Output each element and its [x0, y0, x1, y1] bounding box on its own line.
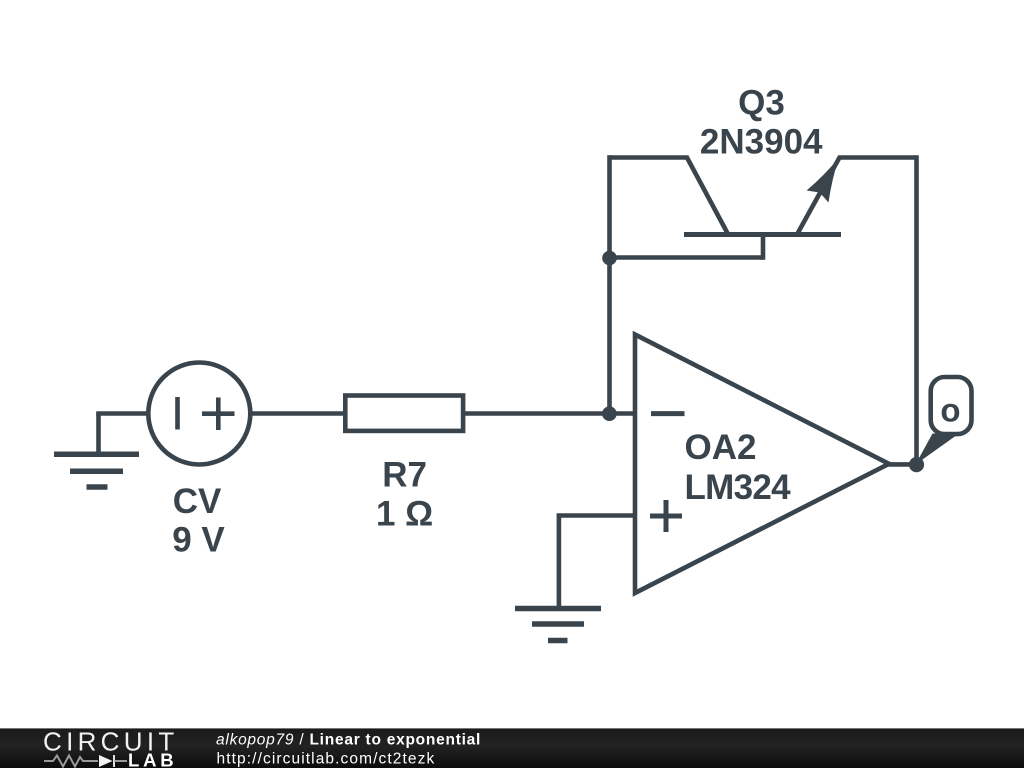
node N2 junction dot (base tap) [602, 251, 617, 266]
wire op-amp output [886, 462, 917, 467]
svg-text:CV: CV [173, 482, 222, 521]
svg-text:o: o [940, 392, 960, 429]
logo resistor zigzag and diode [44, 755, 127, 767]
svg-text:9 V: 9 V [172, 521, 225, 560]
output flag o [931, 377, 972, 434]
label CV 9 V [172, 482, 225, 560]
wire vertical N1 up to transistor collector [607, 155, 612, 413]
op-amp plus sign [650, 500, 682, 532]
svg-text:http://circuitlab.com/ct2tezk: http://circuitlab.com/ct2tezk [217, 750, 436, 767]
wire source to R7 [250, 411, 346, 416]
label R7 1 Ohm [376, 456, 433, 534]
svg-text:2N3904: 2N3904 [700, 123, 823, 162]
wire right vertical (emitter to output node) [914, 155, 919, 464]
footer bar [0, 728, 1024, 768]
node N1 junction dot [602, 406, 617, 421]
wire base tap horizontal [610, 255, 764, 260]
svg-text:Q3: Q3 [738, 84, 785, 123]
svg-text:R7: R7 [382, 456, 427, 495]
resistor R7 [345, 396, 463, 431]
wire base vertical to base bar [761, 235, 766, 260]
output flag pointer [916, 434, 960, 465]
svg-text:LM324: LM324 [685, 468, 792, 507]
svg-text:1 Ω: 1 Ω [376, 495, 433, 534]
ground GND1 (left of source) [54, 414, 139, 488]
svg-text:LAB: LAB [128, 750, 177, 768]
wire ground to source [96, 411, 149, 416]
label OA2 LM324 [685, 428, 792, 507]
voltage source CV [148, 363, 250, 465]
op-amp minus sign [651, 411, 685, 416]
ground GND2 (op-amp + input) [515, 609, 601, 641]
wire R7 to op-amp inverting input [463, 411, 635, 416]
op-amp OA2 [635, 335, 889, 594]
transistor Q3 emitter arrow [807, 158, 839, 203]
label Q3 2N3904 [700, 84, 823, 162]
wire non-inverting input [559, 516, 635, 607]
svg-text:OA2: OA2 [685, 428, 757, 467]
transistor Q3 [610, 158, 917, 235]
node N3 output junction dot [909, 457, 924, 472]
svg-text:alkopop79 / Linear to exponent: alkopop79 / Linear to exponential [216, 731, 481, 748]
